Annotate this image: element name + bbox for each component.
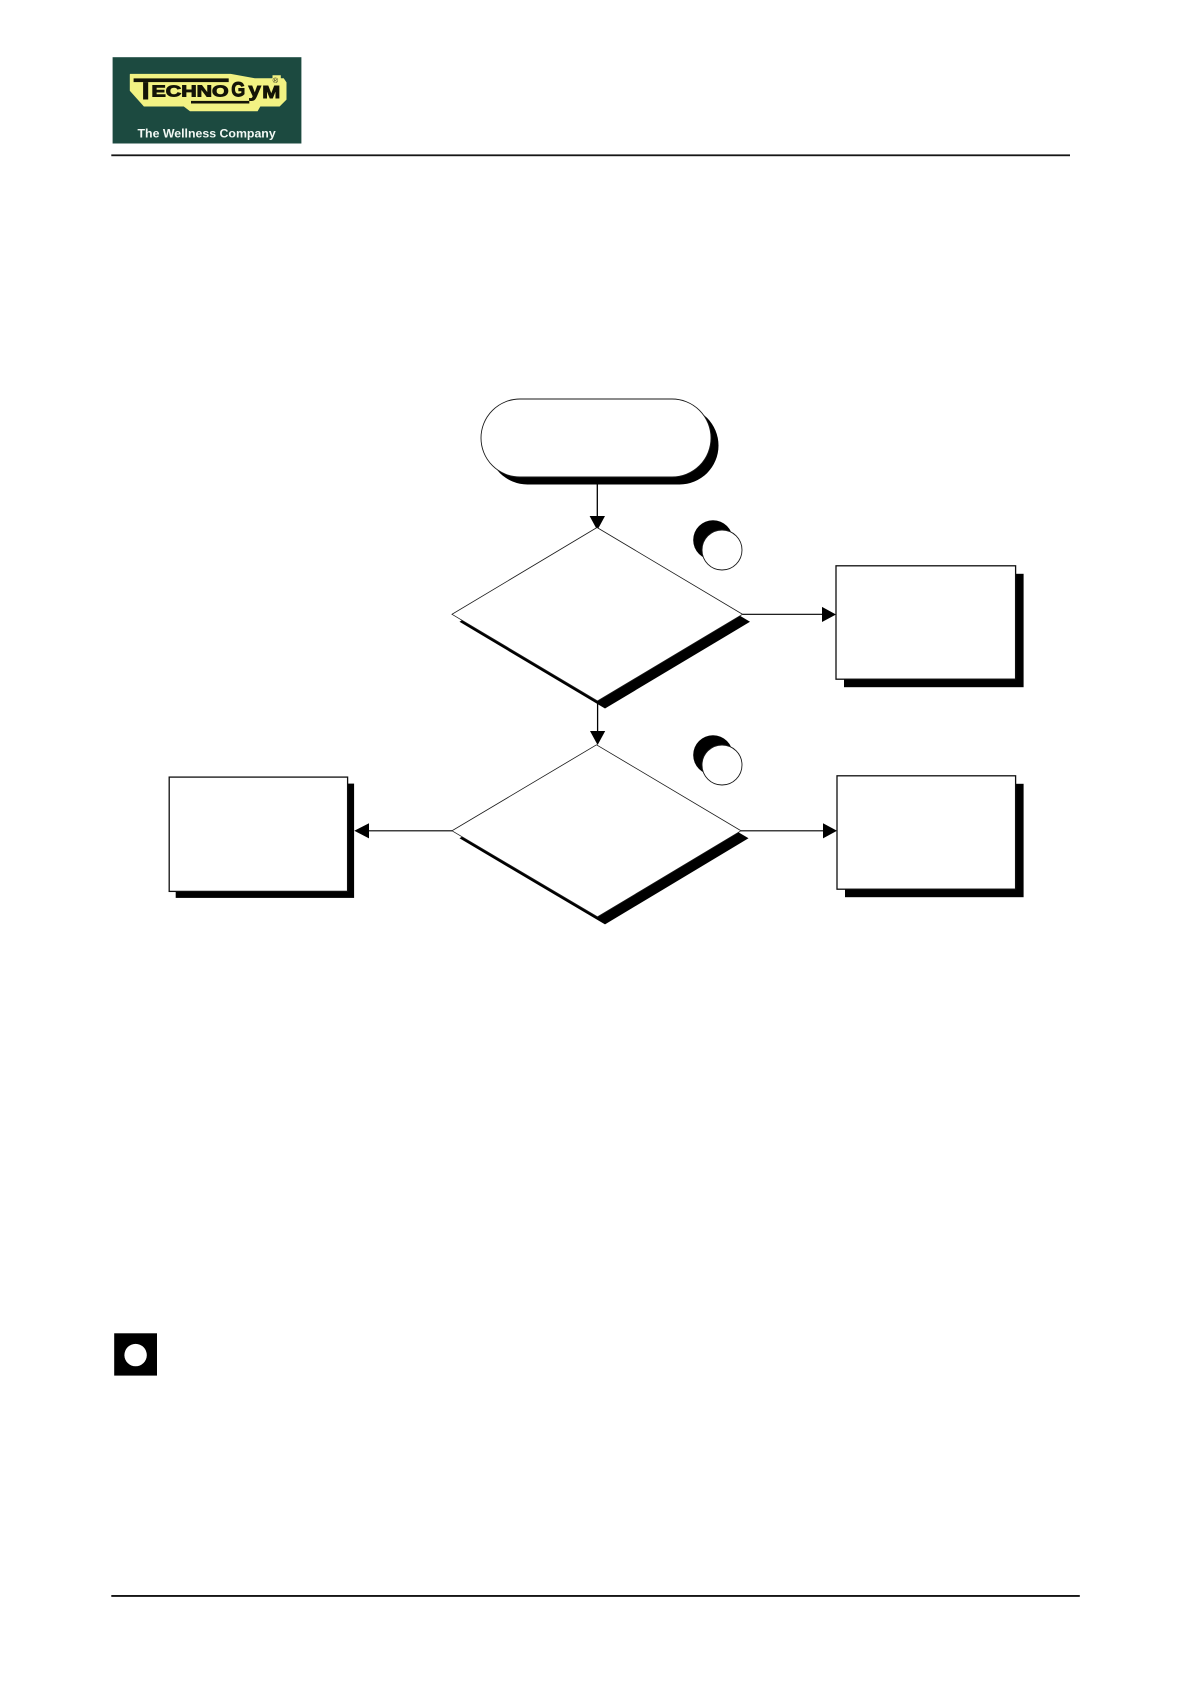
- svg-text:M: M: [262, 82, 280, 102]
- wire: stadium to diamond 1: [596, 480, 598, 517]
- Technogym logo: underline under NOGy: [191, 101, 249, 104]
- Technogym logo: green background plate: [113, 57, 302, 143]
- footer rule: [111, 1595, 1080, 1597]
- svg-text:G: G: [231, 78, 245, 101]
- arrowhead into diamond 1: [590, 516, 605, 530]
- process box left shadow: [176, 784, 354, 898]
- svg-text:®: ®: [273, 76, 279, 85]
- terminator shadow: [489, 407, 719, 485]
- connector circle 1: [702, 530, 742, 570]
- process box right 2 shadow: [845, 784, 1024, 897]
- decision diamond 1 shadow: [460, 535, 751, 709]
- process box right 2: [837, 776, 1016, 889]
- svg-text:ECHNO: ECHNO: [152, 83, 229, 100]
- wire: diamond 2 to left box: [369, 830, 453, 832]
- note icon: black square: [114, 1333, 157, 1375]
- header rule: [111, 154, 1070, 156]
- process box left: [169, 777, 347, 891]
- decision diamond 2: [452, 745, 741, 917]
- decision diamond 1: [452, 528, 743, 702]
- connector circle 2 shadow: [693, 735, 733, 775]
- arrowhead into right box 2: [823, 823, 837, 838]
- connector circle 2: [702, 745, 742, 785]
- process box right 1: [836, 566, 1016, 679]
- decision diamond 2 shadow: [460, 752, 749, 924]
- arrowhead into right box 1: [822, 607, 836, 622]
- process box right 1 shadow: [844, 574, 1024, 687]
- terminator (start stadium): [481, 399, 711, 477]
- note icon: white dot: [124, 1344, 146, 1366]
- arrowhead into diamond 2: [590, 731, 605, 745]
- connector circle 1 shadow: [693, 520, 733, 560]
- Technogym logo: yellow emblem polygon: [130, 74, 287, 111]
- wire: diamond 1 to right box 1: [743, 613, 823, 615]
- wire: diamond 2 to right box 2: [741, 830, 824, 832]
- svg-text:y: y: [248, 79, 261, 101]
- svg-text:The Wellness Company: The Wellness Company: [138, 126, 276, 140]
- Technogym logo: T stem: [143, 82, 148, 99]
- arrowhead into left box: [354, 823, 369, 838]
- wire: diamond 1 to diamond 2: [597, 701, 599, 732]
- Technogym logo: top bar of the T over ECHNO: [134, 78, 229, 82]
